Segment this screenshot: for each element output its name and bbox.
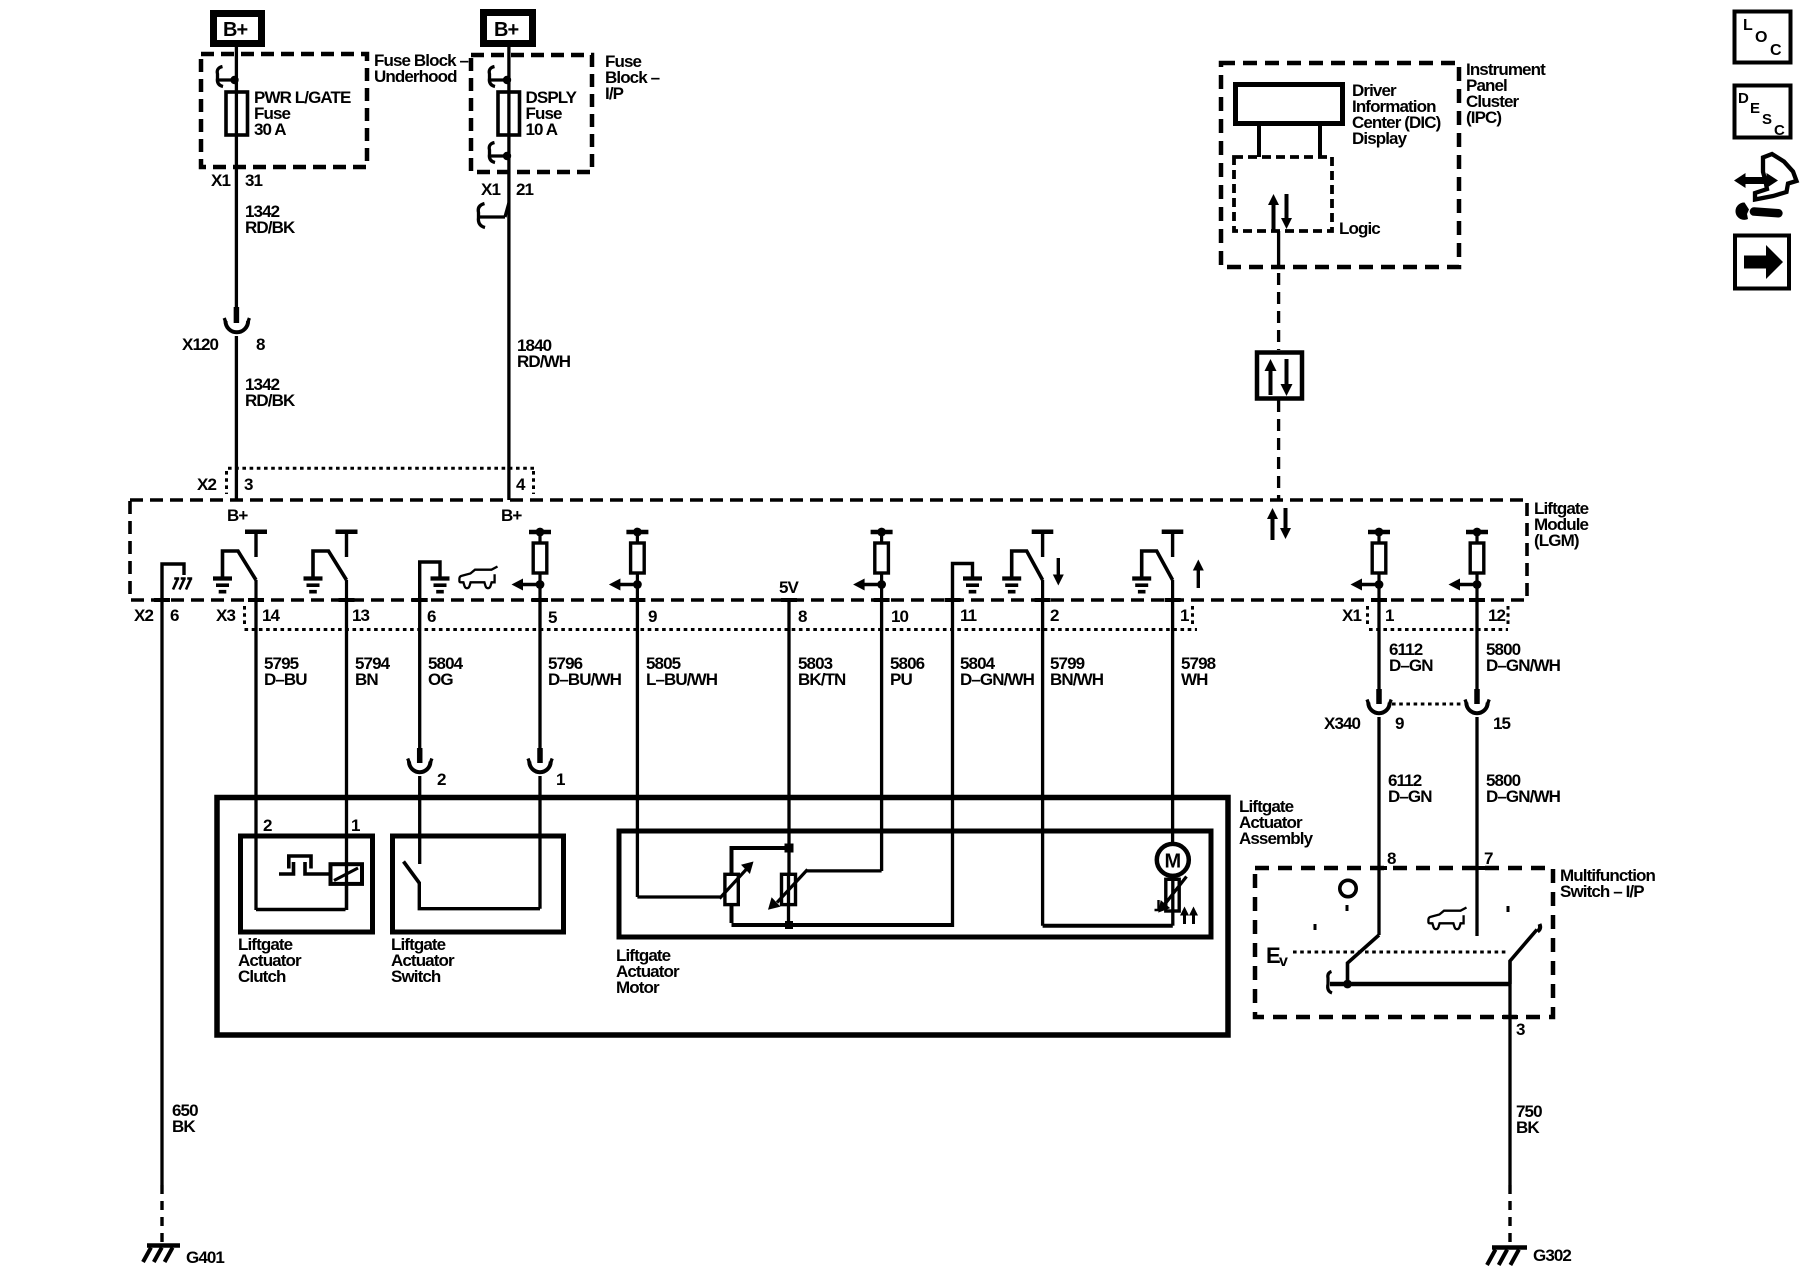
up/down data arrows inside logic box (1268, 194, 1292, 230)
svg-text:8: 8 (1387, 849, 1396, 868)
wire 5805 L-BU/WH (pin 9) (636, 600, 639, 897)
svg-text:RD/WH: RD/WH (517, 352, 571, 371)
svg-text:8: 8 (798, 607, 807, 626)
svg-text:X1: X1 (211, 171, 230, 190)
svg-text:B+: B+ (227, 506, 248, 525)
switch blade pin 7 side (1510, 924, 1540, 984)
svg-text:v: v (1279, 953, 1288, 970)
svg-text:11: 11 (960, 606, 977, 625)
serial data symbol box (1257, 353, 1302, 399)
svg-text:BN/WH: BN/WH (1050, 670, 1104, 689)
wire 650 BK (pin X2-6 to G401) (160, 600, 163, 1185)
svg-text:(IPC): (IPC) (1466, 108, 1501, 127)
serial data wire (dashed) from logic (1277, 231, 1280, 254)
svg-text:C: C (1774, 122, 1785, 139)
svg-text:BK: BK (1516, 1118, 1540, 1137)
svg-text:D–GN/WH: D–GN/WH (1486, 656, 1561, 675)
svg-text:D–GN/WH: D–GN/WH (1486, 787, 1561, 806)
dashed wire end to G401 (160, 1185, 163, 1245)
up/down data arrows inside LGM (1267, 508, 1291, 540)
svg-text:BK: BK (172, 1117, 196, 1136)
svg-text:3: 3 (244, 475, 253, 494)
svg-text:Assembly: Assembly (1239, 829, 1314, 848)
bus tap hook at fuse input (217, 67, 238, 87)
wire DSPLY fuse to LGM pin X2-4, 1840 RD/WH (507, 172, 510, 500)
internal switch pin 2 with down arrow (1002, 532, 1064, 600)
in-line connector pin 1 of actuator switch (528, 748, 565, 789)
common bar (1330, 982, 1510, 986)
svg-text:X120: X120 (182, 335, 219, 354)
svg-text:G401: G401 (186, 1248, 224, 1267)
in-line connector pin 2 of actuator switch (408, 748, 446, 789)
Fuse Block - Underhood (dashed box) (201, 54, 367, 167)
svg-text:6: 6 (427, 607, 436, 626)
svg-text:14: 14 (262, 606, 281, 625)
svg-text:RD/BK: RD/BK (245, 391, 296, 410)
internal ground pin X2-6 (case ground) (162, 564, 192, 600)
svg-text:S: S (1762, 111, 1772, 128)
internal feed pin 5 (512, 528, 552, 600)
internal feed pin 10 (853, 528, 893, 600)
power terminal B+ (middle) (484, 13, 533, 44)
power terminal B+ (left) (214, 14, 262, 44)
wire 6112 D-GN (pin X1-1) (1377, 600, 1380, 690)
internal feed pin 9 (609, 528, 649, 600)
wiring-harness navigation icon (double arrow + outline arrow + wrench) (1734, 154, 1797, 220)
svg-text:X340: X340 (1324, 714, 1361, 733)
svg-text:9: 9 (1395, 714, 1404, 733)
clutch plates and coil (279, 856, 362, 884)
position sensor bridge box (732, 844, 953, 930)
svg-text:9: 9 (648, 607, 657, 626)
inner dotted travel line (1293, 951, 1506, 954)
svg-text:D–GN/WH: D–GN/WH (960, 670, 1035, 689)
wire 5804 OG (pin 6) (418, 600, 421, 749)
svg-text:I/P: I/P (605, 84, 624, 103)
wire 750 BK from pin 3 (1508, 984, 1511, 1185)
potentiometer 1 (wiper from pin 9) (637, 862, 753, 905)
X2 connector line at module top (197, 468, 536, 494)
potentiometer 2 (wiper from pin 10) (768, 870, 882, 926)
wire 5800 D-GN/WH (pin 12) (1475, 600, 1478, 690)
Logic dashed box (1234, 157, 1332, 231)
serial data wire (dashed) to LGM (1277, 400, 1280, 500)
ground G401 (143, 1246, 224, 1268)
wire 5800 D-GN/WH to multifunction switch pin 7 (1475, 717, 1478, 936)
Fuse Block - I/P (dashed box) (471, 55, 592, 172)
svg-text:Logic: Logic (1339, 219, 1380, 238)
ticks at multifunction box entry (1371, 866, 1387, 870)
clutch wire pins through coil (345, 862, 348, 910)
LGM dashed box (130, 500, 1527, 600)
motor return rail (pin 2 to thermistor) (1043, 924, 1173, 928)
svg-text:X2: X2 (134, 606, 153, 625)
svg-text:2: 2 (437, 770, 446, 789)
internal switch pin 1 with up arrow (1132, 532, 1204, 600)
in-line connector X120 pin 8 (182, 307, 265, 354)
svg-text:OG: OG (428, 670, 453, 689)
svg-text:12: 12 (1488, 606, 1506, 625)
wire 6112 D-GN to multifunction switch pin 8 (1377, 717, 1380, 935)
wire 5794 BN (pin 13) (345, 600, 348, 910)
fuse PWR L/GATE 30 A (226, 88, 351, 139)
svg-text:6: 6 (170, 606, 179, 625)
assembly outer box (217, 798, 1228, 1036)
svg-text:1: 1 (1385, 606, 1394, 625)
DIC display rectangle (1236, 85, 1343, 124)
svg-text:15: 15 (1493, 714, 1511, 733)
svg-text:E: E (1750, 100, 1760, 117)
motor thermistor with double arrows (1155, 875, 1199, 926)
svg-text:7: 7 (1484, 849, 1493, 868)
svg-text:L–BU/WH: L–BU/WH (646, 670, 718, 689)
bus tap hook above DSPLY fuse (489, 67, 511, 87)
svg-text:Display: Display (1352, 129, 1408, 148)
svg-text:L: L (1743, 17, 1753, 34)
connector X1 line and labels (1342, 606, 1508, 630)
svg-text:13: 13 (352, 606, 370, 625)
internal ground pin 6 with liftgate icon (420, 562, 498, 600)
svg-text:Underhood: Underhood (374, 67, 457, 86)
svg-text:BN: BN (355, 670, 378, 689)
svg-text:5V: 5V (779, 578, 800, 597)
svg-text:WH: WH (1181, 670, 1208, 689)
pin ticks on LGM lower edge (154, 598, 1485, 602)
svg-text:(LGM): (LGM) (1534, 531, 1579, 550)
fuse DSPLY 10 A (498, 88, 578, 139)
svg-text:5: 5 (548, 608, 557, 627)
contact hook at left of common bar (1328, 972, 1332, 994)
svg-text:B+: B+ (501, 506, 522, 525)
svg-text:10 A: 10 A (526, 120, 558, 139)
svg-text:O: O (1755, 29, 1767, 46)
svg-text:21: 21 (516, 180, 534, 199)
svg-text:D–BU: D–BU (264, 670, 307, 689)
motor M circle (1157, 844, 1189, 876)
bus tap hook below DSPLY fuse (489, 143, 511, 163)
svg-text:4: 4 (516, 475, 526, 494)
svg-text:1: 1 (351, 816, 360, 835)
internal feed pin 12 (1449, 528, 1489, 600)
wire 5803 BK/TN (pin 8) (787, 600, 790, 874)
svg-text:Motor: Motor (616, 978, 660, 997)
DESC icon box (1735, 86, 1791, 140)
svg-text:B+: B+ (494, 19, 519, 41)
detent dashes (1346, 905, 1349, 917)
LOC icon box (1735, 12, 1791, 63)
Liftgate Actuator Clutch box (238, 816, 373, 986)
connector X3 line and labels (216, 606, 1197, 630)
svg-text:1: 1 (556, 770, 565, 789)
wire B+ to fuse block (circuit 1342) (235, 47, 238, 167)
svg-text:30 A: 30 A (254, 120, 286, 139)
Liftgate Actuator Motor box (616, 831, 1211, 997)
internal ground pin 11 (953, 564, 983, 601)
svg-text:1: 1 (1180, 606, 1189, 625)
wire fuse to X120 connector, 1342 RD/BK (235, 167, 238, 309)
wire 5806 PU (pin 10) (880, 600, 883, 871)
svg-text:31: 31 (245, 171, 263, 190)
switch blade pin 8 side (1343, 935, 1379, 988)
svg-text:RD/BK: RD/BK (245, 218, 296, 237)
IPC dashed box (1221, 63, 1459, 267)
wire 5795 D-BU (pin 14) (254, 600, 257, 910)
wire 5796 D-BU/WH (pin 5) (538, 600, 541, 749)
wire 5804 D-GN/WH (pin 11) (951, 600, 954, 927)
svg-text:X3: X3 (216, 606, 235, 625)
svg-text:2: 2 (1050, 606, 1059, 625)
svg-text:10: 10 (891, 607, 909, 626)
svg-text:D–BU/WH: D–BU/WH (548, 670, 622, 689)
wire X120 to LGM pin X2-3, 1342 RD/BK (235, 336, 238, 500)
svg-text:X1: X1 (481, 180, 500, 199)
svg-text:D–GN: D–GN (1388, 787, 1432, 806)
wire 5799 BN/WH (pin 2) (1041, 600, 1044, 926)
internal driver pin 14 (clutch high side) (213, 532, 267, 600)
svg-text:D: D (1738, 90, 1749, 107)
forward navigation icon box (1735, 236, 1789, 289)
svg-text:3: 3 (1516, 1020, 1525, 1039)
svg-text:D–GN: D–GN (1389, 656, 1433, 675)
ground G302 (1487, 1246, 1571, 1265)
svg-text:Switch: Switch (391, 967, 441, 986)
svg-text:X1: X1 (1342, 606, 1361, 625)
Ev symbol (1266, 943, 1288, 970)
svg-text:B+: B+ (223, 19, 248, 41)
internal driver pin 13 (clutch low side) (304, 532, 358, 600)
svg-text:8: 8 (256, 335, 265, 354)
wire B+ through I/P fuse block (507, 47, 510, 172)
bus tap hook below fuse block (478, 203, 509, 228)
dashed wire end to G302 (1508, 1185, 1511, 1246)
svg-text:M: M (1165, 851, 1181, 873)
Liftgate Actuator Switch box (391, 836, 564, 986)
indicator circle (1340, 880, 1356, 896)
svg-text:PU: PU (890, 670, 912, 689)
multifunction switch dashed box (1255, 868, 1553, 1017)
svg-text:C: C (1770, 42, 1782, 59)
svg-text:2: 2 (263, 816, 272, 835)
svg-text:Clutch: Clutch (238, 967, 286, 986)
DIC display legs (1257, 126, 1261, 157)
liftgate icon (multifunction) (1428, 908, 1466, 930)
internal feed pin X1-1 (1351, 528, 1391, 600)
wire 5798 WH (pin 1) (1171, 600, 1174, 844)
svg-text:BK/TN: BK/TN (798, 670, 846, 689)
svg-text:Switch – I/P: Switch – I/P (1560, 882, 1644, 901)
svg-text:X2: X2 (197, 475, 216, 494)
svg-text:G302: G302 (1533, 1246, 1571, 1265)
connector X340 (pins 9 and 15) (1324, 689, 1511, 733)
